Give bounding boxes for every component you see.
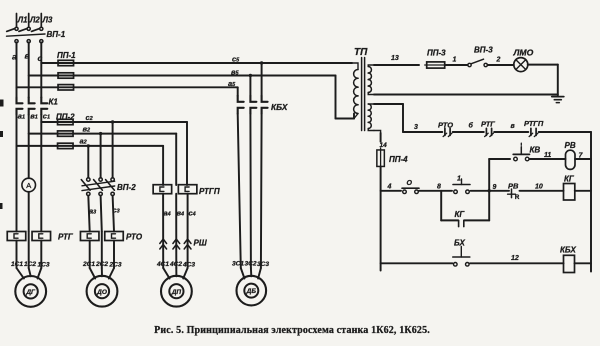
svg-text:а: а [12, 52, 17, 62]
svg-text:КВ: КВ [530, 146, 541, 155]
svg-text:ТП: ТП [354, 47, 368, 58]
svg-text:13: 13 [391, 55, 399, 62]
svg-text:А: А [26, 181, 31, 190]
svg-text:РТГП: РТГП [199, 187, 220, 196]
svg-text:К1: К1 [49, 98, 59, 107]
svg-text:в: в [25, 51, 30, 61]
svg-text:11: 11 [544, 152, 551, 159]
svg-text:БХ: БХ [454, 239, 466, 248]
svg-text:Л1: Л1 [17, 16, 28, 25]
svg-text:2: 2 [496, 57, 501, 64]
svg-text:ВП-1: ВП-1 [47, 30, 66, 39]
svg-text:ДГ: ДГ [25, 289, 36, 296]
svg-text:1С3: 1С3 [38, 262, 50, 269]
svg-text:2С3: 2С3 [109, 262, 122, 269]
svg-text:4: 4 [387, 184, 392, 191]
svg-text:1С1: 1С1 [11, 261, 23, 268]
svg-text:3С3: 3С3 [257, 261, 269, 268]
svg-text:1: 1 [453, 57, 457, 64]
svg-text:КБХ: КБХ [560, 246, 576, 255]
svg-text:1: 1 [457, 176, 461, 183]
svg-text:ЛМО: ЛМО [513, 48, 534, 58]
svg-text:ПП-4: ПП-4 [389, 155, 408, 164]
svg-text:РШ: РШ [194, 239, 207, 248]
svg-text:2С1: 2С1 [82, 261, 95, 268]
svg-text:2С2: 2С2 [95, 261, 108, 268]
svg-text:КГ: КГ [455, 210, 466, 219]
svg-text:РТГП: РТГП [524, 119, 544, 128]
svg-text:8: 8 [437, 184, 441, 191]
svg-text:3С1: 3С1 [232, 261, 244, 268]
svg-text:R: R [515, 194, 520, 201]
svg-text:РТО: РТО [126, 233, 143, 242]
svg-text:1С2: 1С2 [24, 261, 36, 268]
svg-text:ПП-3: ПП-3 [427, 49, 446, 58]
svg-text:10: 10 [535, 184, 543, 191]
svg-text:с: с [38, 53, 43, 63]
svg-text:ДО: ДО [96, 289, 107, 296]
svg-text:3: 3 [414, 124, 418, 131]
svg-text:ДБ: ДБ [246, 288, 257, 295]
svg-text:КГ: КГ [564, 175, 575, 184]
svg-text:12: 12 [511, 255, 519, 262]
svg-text:ВП-2: ВП-2 [117, 183, 136, 192]
svg-text:Л2: Л2 [29, 16, 40, 25]
svg-text:4С1: 4С1 [156, 261, 169, 268]
svg-text:б: б [469, 122, 474, 130]
svg-text:РТГ: РТГ [481, 120, 495, 129]
svg-text:РТО: РТО [438, 121, 453, 130]
svg-text:4С3: 4С3 [182, 262, 195, 269]
svg-text:9: 9 [493, 184, 497, 191]
svg-text:РВ: РВ [565, 141, 576, 150]
svg-text:ВП-3: ВП-3 [474, 46, 493, 55]
svg-text:ПП-1: ПП-1 [57, 51, 76, 60]
svg-text:ДП: ДП [171, 289, 182, 296]
svg-text:О: О [407, 180, 413, 187]
svg-text:РТГ: РТГ [58, 233, 74, 242]
svg-text:4С2: 4С2 [169, 261, 182, 268]
svg-text:Рис. 5. Принципиальная электро: Рис. 5. Принципиальная электросхема стан… [154, 325, 430, 336]
svg-text:РВ: РВ [508, 181, 519, 190]
svg-text:КБХ: КБХ [271, 102, 288, 112]
svg-text:3С2: 3С2 [245, 261, 257, 268]
svg-text:Л3: Л3 [42, 16, 53, 25]
